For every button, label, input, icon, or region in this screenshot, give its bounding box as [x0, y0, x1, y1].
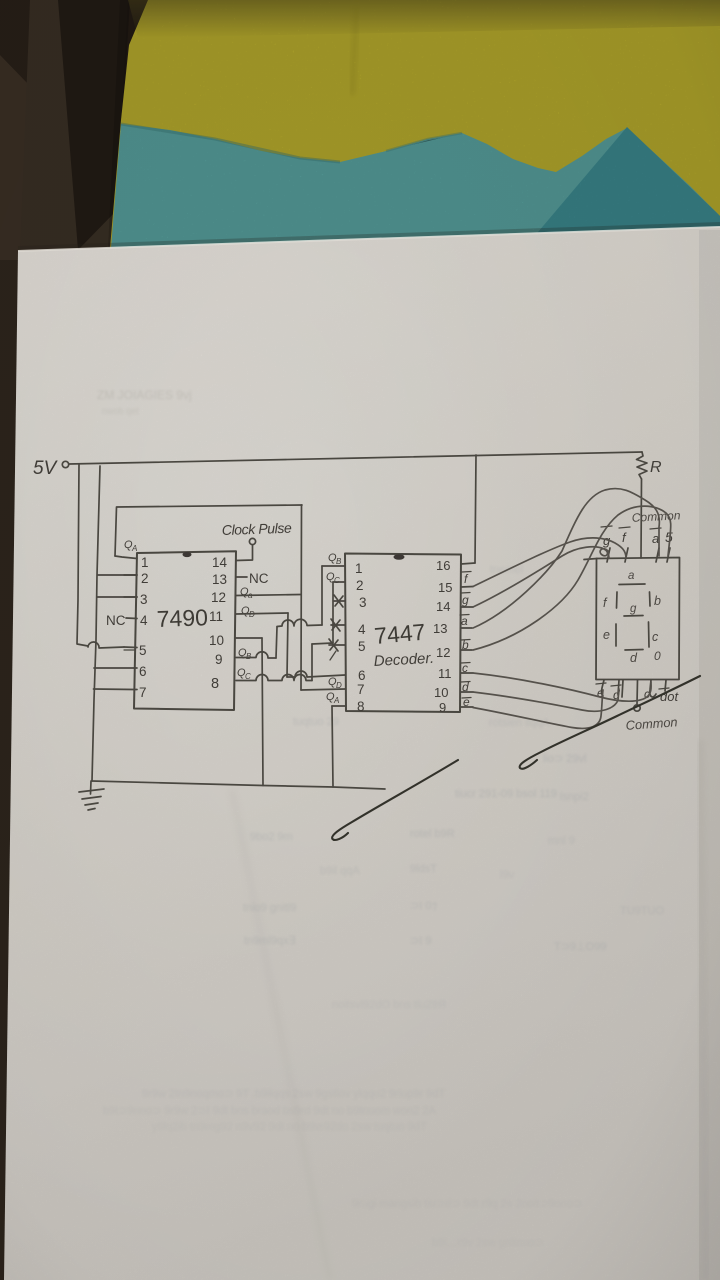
wire ground bus vertical — [92, 466, 100, 781]
U2 pin 16 VCC wire to rail — [436, 455, 476, 573]
U2 pin 10 — [434, 680, 473, 700]
svg-text:6: 6 — [358, 668, 366, 683]
svg-text:9rugi mangsib tiu⊃ri⊃ 9dt r9q: 9rugi mangsib tiu⊃ri⊃ 9dt r9q 2s 2noit⊃9… — [352, 1198, 582, 1210]
svg-text:5: 5 — [358, 639, 366, 654]
node 5V supply label — [33, 458, 59, 479]
IC U2 7447 body — [345, 554, 461, 713]
U1 pin 6 stub — [134, 664, 147, 679]
wire branch to pin 2 — [98, 574, 137, 576]
svg-text:7447: 7447 — [373, 619, 426, 649]
label QC at pin 8 — [237, 667, 251, 681]
ghost text layer (ink bleed-through from reverse side, illegible) — [97, 388, 664, 1249]
svg-text:b9i…r9v 2sw gnitnuo⊃: b9i…r9v 2sw gnitnuo⊃ — [432, 1237, 544, 1249]
resistor R on common line — [637, 452, 663, 479]
svg-text:16: 16 — [436, 558, 450, 573]
svg-text:tn9ml9qx∃: tn9ml9qx∃ — [244, 935, 296, 947]
svg-text:T⊃9⊥O99: T⊃9⊥O99 — [554, 941, 606, 953]
svg-text:a: a — [652, 531, 659, 546]
svg-text:8: 8 — [211, 676, 219, 692]
svg-text:10: 10 — [209, 633, 224, 648]
wire QA: U1.12 to U2.7 — [236, 595, 301, 596]
svg-text:5: 5 — [139, 643, 147, 658]
svg-text:b9t⊃9nno⊃ 9r9w 2⊃I 9dt bns bra: b9t⊃9nno⊃ 9r9w 2⊃I 9dt bns braod bs9rd 9… — [103, 1105, 436, 1117]
U2 pin 9 — [439, 695, 473, 715]
schematic layer — [33, 452, 700, 840]
svg-text:9: 9 — [439, 700, 446, 715]
display segment f — [603, 592, 617, 610]
U2 notch dot — [394, 554, 405, 560]
svg-text:d: d — [630, 651, 638, 665]
svg-text:3: 3 — [140, 592, 148, 607]
U1 notch dot — [183, 552, 192, 557]
wire d: U2.10 to display — [473, 689, 619, 711]
svg-text:tnio9 gnitl9: tnio9 gnitl9 — [243, 902, 296, 914]
fabric shading — [121, 124, 340, 162]
clock pulse terminal circle — [249, 538, 255, 544]
display segment a — [619, 570, 645, 585]
svg-text:5V: 5V — [33, 458, 59, 479]
svg-text:11: 11 — [209, 609, 223, 624]
light teal region — [111, 124, 720, 250]
display top pin stub f — [619, 527, 630, 562]
ground symbol — [79, 781, 104, 810]
U1 pin 5 stub — [124, 643, 147, 658]
U2 pin 4 stub with X — [331, 619, 366, 637]
IC U1 7490 body — [134, 551, 236, 710]
U2 pin 15 — [438, 572, 473, 596]
svg-text:b: b — [654, 594, 661, 608]
svg-text:14: 14 — [212, 555, 228, 570]
wire c: U2.11 to display — [473, 673, 651, 701]
wire QD: U1.11 to U2.6 — [236, 613, 288, 614]
label QD at pin 11 — [241, 605, 255, 619]
svg-text:8: 8 — [357, 699, 365, 714]
display segment b — [650, 592, 662, 608]
U1 pin 7 stub — [134, 685, 147, 700]
display top pin stub a — [650, 528, 661, 562]
display top edge extension — [584, 559, 597, 560]
U1 pin 2 stub — [124, 571, 149, 586]
svg-text:13: 13 — [433, 621, 447, 636]
svg-text:9ldsT: 9ldsT — [410, 863, 437, 875]
display segment c — [649, 622, 660, 647]
5V terminal circle — [62, 461, 68, 467]
U2 pin 14 — [436, 593, 473, 615]
wire U1.10 down to ground rail — [236, 637, 262, 639]
svg-text:6: 6 — [139, 664, 147, 679]
svg-text:7490: 7490 — [156, 604, 208, 632]
svg-text:rotsien ilqqA: rotsien ilqqA — [489, 717, 550, 729]
svg-text:⊃I 0⁊: ⊃I 0⁊ — [410, 900, 437, 912]
svg-text:9r9w 2tn9noqmo⊃ 9T .b9ilqqs 2: 9r9w 2tn9noqmo⊃ 9T .b9ilqqs 2sw 9gstlov … — [142, 1088, 445, 1100]
clock pulse box — [115, 505, 302, 556]
display DS1 body — [596, 558, 680, 680]
svg-text:C: C — [334, 576, 340, 585]
svg-text:A: A — [333, 696, 339, 705]
svg-text:A: A — [131, 544, 137, 553]
wire b: U2.12 to display — [473, 506, 671, 650]
svg-text:nwob qet: nwob qet — [102, 406, 139, 416]
svg-text:noitsvl92dO bns tlu29Я: noitsvl92dO bns tlu29Я — [332, 999, 446, 1011]
label QB near U2 pin1 — [328, 552, 342, 566]
display top pin stub b "5" — [665, 529, 673, 562]
svg-text:12: 12 — [436, 645, 450, 660]
display bottom stub dot — [659, 680, 679, 704]
svg-text:2: 2 — [356, 578, 364, 593]
svg-text:11: 11 — [438, 666, 452, 681]
display bottom stub c — [644, 680, 656, 701]
svg-text:⊃I 9: ⊃I 9 — [410, 935, 431, 947]
wire QB: U1.9 to U2.1 — [236, 652, 276, 658]
wire branch to pin 6 — [94, 667, 134, 669]
svg-text:7: 7 — [357, 682, 365, 697]
wire QC: U1.8 to U2.2 — [236, 675, 312, 681]
svg-text:lio⊃ 29vl: lio⊃ 29vl — [543, 753, 586, 765]
wire bottom ground rail — [92, 781, 385, 789]
svg-text:lsnpi2: lsnpi2 — [560, 791, 589, 803]
svg-text:l9v: l9v — [500, 869, 515, 881]
U1 pin 13 stub with NC — [212, 571, 269, 587]
svg-text:14: 14 — [436, 599, 450, 614]
display bottom stub e — [596, 680, 606, 700]
svg-text:0: 0 — [654, 649, 661, 663]
label QB at pin 9 — [238, 647, 252, 661]
svg-text:9: 9 — [215, 652, 223, 667]
display bottom stub d — [611, 680, 623, 702]
wire branch to pin 7 — [94, 688, 135, 691]
dark teal triangle — [527, 127, 720, 245]
svg-text:rotel b9R: rotel b9R — [410, 828, 455, 840]
svg-text:12: 12 — [211, 590, 226, 605]
wire clock terminal to pin 14 — [236, 545, 253, 561]
svg-text:4: 4 — [140, 613, 148, 628]
svg-text:NC: NC — [106, 613, 126, 628]
label QA near U2 pin7 — [326, 691, 339, 705]
fabric texture grain — [108, 0, 720, 248]
svg-text:g: g — [462, 593, 469, 607]
display bottom common wire — [634, 680, 640, 711]
label QA at pin 12 — [240, 586, 253, 600]
svg-text:Decoder.: Decoder. — [373, 650, 434, 670]
svg-text:10: 10 — [434, 685, 448, 700]
svg-text:13: 13 — [212, 572, 227, 587]
label QC near U2 pin2 — [326, 571, 340, 585]
wire g: U2.14 to display — [473, 547, 609, 607]
svg-text:ZM JOIAGIES 9vj: ZM JOIAGIES 9vj — [97, 388, 192, 402]
wire f: U2.15 to display — [473, 538, 626, 587]
wire e: U2.9 to display — [473, 690, 603, 728]
wire common vertical from R to display — [640, 479, 643, 558]
svg-text:4: 4 — [358, 622, 366, 637]
label QD near U2 pin6 — [328, 676, 342, 690]
svg-text:e: e — [603, 628, 610, 642]
svg-text:7: 7 — [139, 685, 147, 700]
U2 pin 3 stub with X — [334, 595, 367, 610]
svg-text:3: 3 — [359, 595, 367, 610]
wire U2.8 to ground rail — [332, 705, 346, 707]
svg-text:c: c — [652, 630, 659, 644]
svg-text:a: a — [628, 570, 634, 582]
wire branch to pin 3 — [97, 596, 137, 598]
stray pen stroke lower-right — [520, 676, 700, 769]
wire left branch from rail down to pin5 jog — [77, 464, 124, 648]
U1 pin 4 stub with NC — [106, 613, 148, 628]
display segment e — [603, 624, 616, 646]
svg-text:Clock Pulse: Clock Pulse — [222, 520, 293, 538]
svg-text:B: B — [336, 557, 342, 566]
svg-text:2: 2 — [141, 571, 149, 586]
svg-text:15: 15 — [438, 580, 452, 595]
U2 pin 11 — [438, 661, 473, 681]
svg-text:1: 1 — [355, 561, 363, 576]
display segment g — [624, 603, 643, 616]
svg-text:mnl 9: mnl 9 — [548, 835, 575, 847]
svg-text:a: a — [461, 614, 468, 628]
svg-text:tiucr 291-09 bsol 119: tiucr 291-09 bsol 119 — [455, 788, 557, 800]
svg-text:B: B — [246, 652, 252, 661]
svg-text:g: g — [630, 603, 637, 615]
wire box bottom-left to pin 1 — [115, 556, 137, 559]
wire 5V supply rail — [69, 452, 642, 464]
svg-text:b9il qqA: b9il qqA — [320, 865, 360, 877]
svg-text:D: D — [336, 681, 342, 690]
U2 pin 13 — [433, 614, 472, 636]
wire a: U2.13 to display — [473, 489, 659, 628]
svg-text:R: R — [650, 459, 662, 476]
display top pin stub g — [601, 526, 612, 562]
U2 pin 12 — [436, 638, 472, 660]
svg-text:9bo2 9m: 9bo2 9m — [250, 831, 293, 843]
U1 pin 3 stub — [124, 592, 148, 607]
stray pen stroke lower-left — [332, 760, 458, 840]
display segment d — [625, 650, 643, 666]
svg-text:1: 1 — [141, 555, 149, 570]
U2 pin 5 stub with X — [329, 639, 366, 660]
svg-text:NC: NC — [249, 571, 269, 586]
svg-text:y9lq2ib tn9mg92 n9v92 9dt no b: y9lq2ib tn9mg92 n9v92 9dt no b9vr92do 2s… — [152, 1121, 427, 1133]
svg-text:TU9TUO: TU9TUO — [620, 905, 664, 917]
